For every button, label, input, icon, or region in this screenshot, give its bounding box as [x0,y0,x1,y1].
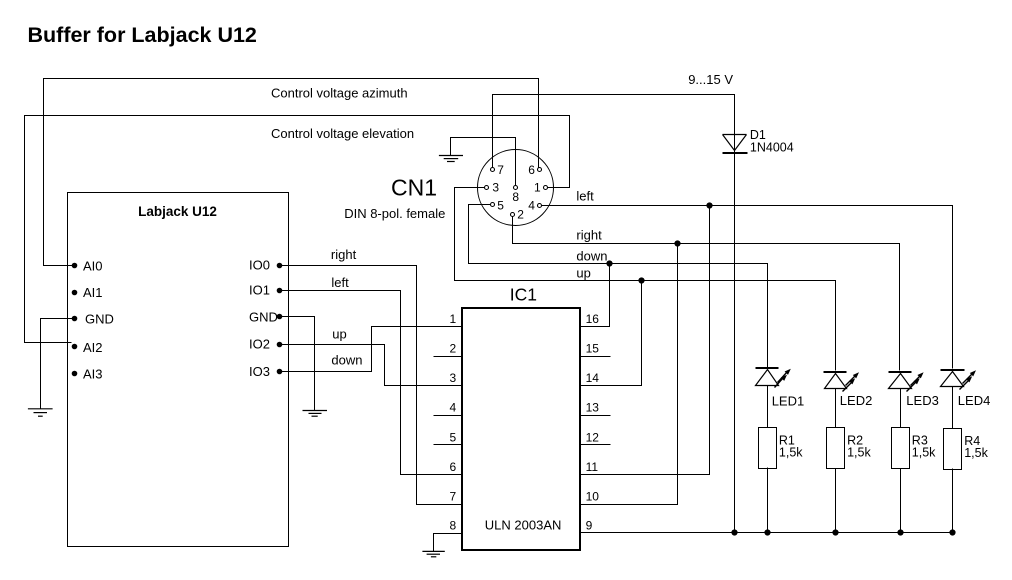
svg-text:14: 14 [586,371,600,385]
pin IO3 [277,369,283,375]
junction: up net to IC1 pin 14 [638,277,644,283]
svg-text:Buffer for Labjack U12: Buffer for Labjack U12 [28,23,257,47]
svg-text:1,5k: 1,5k [847,446,871,460]
junction: down net to IC1 pin 16 [606,260,612,266]
CN1 pin 3 circle [485,186,489,190]
svg-text:right: right [331,247,357,262]
IC1 box [462,308,580,550]
LED3 [889,372,924,392]
svg-text:1: 1 [450,312,457,326]
wire: Labjack right GND to ground [280,317,315,411]
svg-text:IC1: IC1 [510,285,537,305]
svg-text:up: up [332,327,346,342]
resistor R2 [827,428,845,469]
CN1 pin 6 circle [538,168,542,172]
svg-text:1: 1 [534,180,541,194]
wire: R3 to rail [900,469,902,533]
wire: IO1 to IC1 pin 6 (left net) [280,291,462,475]
svg-text:4: 4 [450,401,457,415]
svg-text:5: 5 [497,198,504,212]
wire: R1 to rail [767,468,769,533]
wire: LED2 to R2 [835,389,837,428]
resistor R3 [892,428,910,469]
svg-text:left: left [331,275,349,290]
svg-text:16: 16 [586,312,600,326]
junction: R1 on rail [764,529,770,535]
wire: CN1 pin 3 to up net and LED2 [455,188,836,371]
svg-text:3: 3 [450,371,457,385]
svg-text:2: 2 [517,207,524,221]
IC1 pin 4 stub [434,415,463,417]
svg-text:Control voltage elevation: Control voltage elevation [271,126,414,141]
IC1 pin 13 stub [581,415,611,417]
svg-text:8: 8 [512,190,519,204]
svg-text:15: 15 [586,342,600,356]
svg-text:AI2: AI2 [83,340,103,355]
svg-text:9...15 V: 9...15 V [688,72,733,87]
wire: LED4 to R4 [952,387,954,429]
svg-text:3: 3 [492,180,499,194]
svg-text:2: 2 [450,342,457,356]
svg-text:left: left [576,188,594,203]
CN1 pin 7 circle [491,168,495,172]
CN1 pin 2 circle [511,213,515,217]
svg-text:IO3: IO3 [249,364,270,379]
wire: CN1 pin 4 to left net and LED4 [542,206,953,369]
IC1 pin 15 stub [581,356,611,358]
IC1 pin 12 stub [581,444,611,446]
svg-text:CN1: CN1 [391,175,437,201]
svg-text:6: 6 [528,163,535,177]
ground (Labjack right) [303,411,328,417]
svg-text:LED2: LED2 [840,393,873,408]
svg-text:1,5k: 1,5k [912,446,936,460]
wire: IO0 to IC1 pin 7 (right net) [280,266,462,505]
svg-text:1N4004: 1N4004 [750,141,794,155]
CN1 pin 5 circle [491,203,495,207]
svg-text:IO1: IO1 [249,283,270,298]
IC1 right pin numbers [586,312,600,533]
svg-text:DIN 8-pol. female: DIN 8-pol. female [344,206,445,221]
pin GND (Labjack right) [277,314,283,320]
svg-text:1,5k: 1,5k [779,446,803,460]
svg-text:1,5k: 1,5k [964,446,988,460]
svg-text:right: right [576,227,602,242]
CN1 pin 8 circle [514,186,518,190]
wire: Labjack GND to ground [41,319,75,409]
wire: R2 to rail [835,469,837,533]
svg-text:9: 9 [586,519,593,533]
svg-text:GND: GND [249,309,278,324]
resistor R4 [944,429,962,470]
IC1 pin 5 stub [434,444,463,446]
Labjack U12 box [68,193,289,547]
svg-text:LED1: LED1 [772,393,805,408]
wire: LED3 to R3 [900,389,902,428]
wire: CN1 pin 5 to down net and LED1 [469,205,768,368]
wire: R4 to rail [952,469,954,533]
connector CN1 circle [478,150,554,226]
resistor R1 [759,428,777,469]
pin IO0 [277,263,283,269]
wire: IO3 to IC1 pin 1 (down net) [280,327,462,372]
junction: R2 on rail [832,529,838,535]
pin AI0 [72,263,78,269]
svg-text:up: up [576,265,590,280]
svg-text:LED4: LED4 [958,393,991,408]
svg-text:GND: GND [85,312,114,327]
CN1 pin 4 circle [538,204,542,208]
svg-text:Labjack U12: Labjack U12 [138,204,217,219]
svg-text:12: 12 [586,430,600,444]
LED2 [824,372,860,392]
wire: IC1 pin 9 to bottom supply rail [581,532,953,534]
IC1 left pin numbers [450,312,457,533]
svg-text:AI0: AI0 [83,259,103,274]
pin AI2 [72,344,78,350]
wire: control voltage azimuth net (AI0 to CN1 pin 6) [44,79,539,266]
wire: CN1 pin 8 to ground [451,138,516,186]
junction: supply column on rail [731,529,737,535]
wire: CN1 pin 7 to 9...15V supply, down to diode and bottom rail [493,95,735,533]
wire: control voltage elevation net (AI2 to CN1 pin 1) [25,116,570,343]
svg-text:AI3: AI3 [83,367,103,382]
pin IO1 [277,288,283,294]
svg-text:IO2: IO2 [249,336,270,351]
svg-text:ULN 2003AN: ULN 2003AN [485,517,562,532]
pin GND (Labjack left) [72,316,78,322]
LED4 [941,370,977,390]
LED1 [756,368,791,388]
pin AI3 [72,371,78,377]
ground (Labjack left) [28,409,53,416]
svg-text:4: 4 [528,198,535,212]
wire: IO2 to IC1 pin 3 (up net) [280,345,462,386]
svg-text:down: down [576,249,607,264]
svg-text:Control voltage azimuth: Control voltage azimuth [271,85,408,100]
wire: CN1 pin 2 to right net and LED3 [513,217,900,371]
IC1 pin 2 stub [434,356,463,358]
junction: left net to IC1 pin 11 [706,202,712,208]
pin IO2 [277,342,283,348]
svg-text:13: 13 [586,401,600,415]
svg-text:5: 5 [450,430,457,444]
junction: R3 on rail [897,529,903,535]
svg-text:8: 8 [450,519,457,533]
svg-text:down: down [331,352,362,367]
junction: R4 on rail [949,529,955,535]
junction: right net to IC1 pin 10 [674,240,680,246]
svg-text:AI1: AI1 [83,285,103,300]
svg-text:IO0: IO0 [249,257,270,272]
wire: LED1 to R1 [767,386,769,428]
ground (IC1 pin 8) [422,551,444,556]
ground (CN1 pin 8) [439,156,463,162]
svg-text:6: 6 [450,460,457,474]
svg-text:10: 10 [586,490,600,504]
svg-text:7: 7 [497,163,504,177]
pin AI1 [72,290,78,296]
diode D1 [723,135,748,154]
svg-text:7: 7 [450,490,457,504]
svg-text:11: 11 [586,460,599,474]
CN1 pin 1 circle [544,186,548,190]
IC1 pin 8 wire to ground [434,534,463,552]
svg-text:LED3: LED3 [906,393,939,408]
